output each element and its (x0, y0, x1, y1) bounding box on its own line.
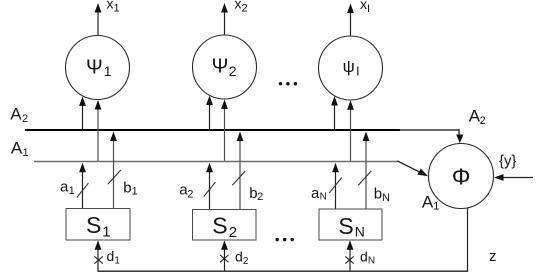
wire PSI1 right input from A1 (95, 100, 102, 161)
svg-text:2: 2 (187, 188, 193, 200)
wire y input arrow (494, 174, 533, 181)
wire PSII left input from A2 (331, 96, 338, 129)
bus A2 (25, 129, 400, 131)
svg-text:Ψ: Ψ (86, 56, 103, 78)
svg-text:b: b (123, 179, 131, 196)
svg-text:N: N (320, 192, 327, 203)
svg-text:N: N (382, 192, 390, 204)
svg-text:S: S (86, 212, 101, 238)
svg-text:Φ: Φ (452, 164, 471, 190)
svg-text:d: d (107, 248, 115, 264)
svg-text:1: 1 (433, 200, 439, 212)
wire aN from SN to A1 (332, 163, 339, 209)
svg-text:ψ: ψ (343, 58, 355, 76)
svg-text:1: 1 (69, 185, 75, 197)
block PSI2 circle (193, 35, 257, 99)
svg-text:1: 1 (102, 224, 110, 241)
svg-text:b: b (374, 185, 382, 202)
svg-text:2: 2 (243, 256, 249, 267)
svg-text:2: 2 (229, 224, 237, 241)
svg-text:2: 2 (22, 113, 28, 125)
block S1 (66, 209, 130, 241)
wire b1 from S1 to A2 (110, 132, 117, 209)
wire PSI2 right input from A1 (221, 100, 228, 161)
svg-text:2: 2 (257, 191, 263, 203)
svg-text:A: A (10, 104, 22, 123)
svg-text:1: 1 (114, 256, 120, 267)
svg-text:z: z (489, 248, 497, 265)
wire z bottom bus (97, 270, 468, 272)
slash a1 (77, 183, 89, 197)
wire a2 from S2 to A1 (206, 163, 213, 210)
block SN (319, 209, 382, 240)
svg-text:1: 1 (104, 63, 112, 79)
ellipsis bottom (276, 238, 294, 241)
block PSII circle (319, 36, 383, 100)
multiplier x mark d2 (220, 255, 228, 262)
wire PSII right input from A1 (347, 100, 354, 161)
svg-text:d: d (235, 248, 243, 264)
slash a2 (204, 182, 216, 196)
wire b2 from S2 to A2 (237, 132, 244, 210)
svg-text:2: 2 (229, 63, 237, 79)
slash b2 (232, 171, 245, 185)
wire PSI2 left input from A2 (206, 96, 213, 130)
block PHI circle (429, 144, 494, 209)
wire output x2 arrow (221, 3, 228, 35)
slash bN (358, 171, 371, 185)
block PSI1 circle (66, 36, 130, 100)
svg-text:I: I (356, 64, 360, 79)
svg-text:A: A (11, 139, 23, 158)
svg-text:Ψ: Ψ (212, 56, 229, 78)
svg-text:1: 1 (132, 186, 138, 198)
wire A2 into PHI (turn down) (456, 129, 463, 143)
svg-text:d: d (360, 248, 368, 264)
svg-text:N: N (355, 224, 365, 240)
wire PSI1 left input from A2 (79, 96, 86, 129)
block S2 (193, 210, 257, 241)
svg-text:2: 2 (480, 115, 486, 127)
wire bN from SN to A2 (363, 132, 370, 210)
multiplier x mark d1 (94, 256, 102, 263)
svg-text:A: A (422, 192, 434, 211)
wire output xI arrow (347, 4, 354, 37)
svg-text:S: S (338, 213, 353, 239)
slash b1 (108, 170, 121, 184)
wire output x1 arrow (95, 3, 102, 36)
svg-text:1: 1 (23, 147, 29, 159)
slash aN (329, 178, 342, 193)
ellipsis top (279, 82, 297, 85)
svg-text:N: N (368, 256, 375, 267)
bus A1 (gray) (34, 161, 398, 163)
svg-text:S: S (212, 213, 227, 239)
wire d1 into S1 (95, 240, 102, 271)
svg-text:{y}: {y} (499, 152, 517, 169)
wire A1 diagonal into PHI (398, 161, 429, 176)
wire z feedback from PHI bottom (467, 208, 469, 272)
wire a1 from S1 to A1 (79, 163, 86, 209)
multiplier x mark dN (345, 256, 353, 263)
wire d2 into S2 (221, 240, 228, 271)
wire dN into SN (347, 240, 354, 271)
